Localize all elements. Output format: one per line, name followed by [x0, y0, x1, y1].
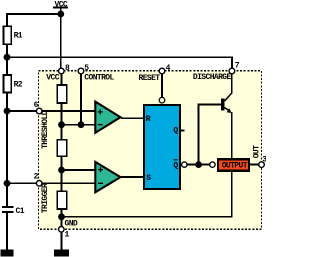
transistor Q1 (discharge) — [221, 71, 232, 113]
node 2/3 divider junction — [58, 121, 65, 128]
node control junction — [78, 121, 85, 128]
wire: trigger line — [6, 182, 94, 184]
divider resistor bottom — [57, 191, 66, 209]
wire: divider chain — [61, 71, 63, 250]
node 1/3 divider junction — [58, 167, 65, 174]
wire: base net up and over — [199, 105, 222, 165]
Qbar bubble — [182, 162, 187, 167]
wire: comparator2 plus feed — [62, 169, 95, 171]
svg-text:C1: C1 — [16, 207, 25, 216]
node R1-R2 junction — [4, 54, 11, 61]
flip-flop U1 — [144, 105, 180, 189]
wire: comparator1 minus feed — [62, 124, 95, 126]
pin 6 THRESHOLD — [34, 101, 50, 149]
wire: discharge line — [6, 57, 232, 68]
wire: ground return loop — [62, 112, 232, 217]
svg-text:DISCHARGE: DISCHARGE — [193, 73, 232, 82]
svg-text:1: 1 — [65, 231, 70, 240]
pin 7 DISCHARGE — [193, 62, 240, 82]
reset inverter bubble — [159, 97, 165, 103]
node trigger junction — [4, 180, 11, 187]
op-amp comparator 1 (threshold) — [95, 102, 120, 133]
svg-text:OUT: OUT — [252, 145, 261, 158]
svg-text:OUTPUT: OUTPUT — [222, 162, 248, 171]
pin 2 TRIGGER — [34, 173, 50, 214]
wire: VCC stub down to pin 8 — [60, 8, 62, 72]
op-amp comparator 2 (trigger) — [95, 162, 120, 192]
svg-text:R1: R1 — [14, 32, 23, 41]
wire: Qbar to output stage — [187, 164, 210, 166]
svg-text:TRIGGER: TRIGGER — [41, 183, 50, 213]
resistor R2 — [4, 75, 23, 93]
pin 1 GND — [59, 219, 78, 239]
svg-text:3: 3 — [262, 155, 266, 164]
output stage input bubble — [210, 162, 215, 167]
pin 5 CONTROL — [78, 64, 114, 82]
wire: comparator1 output to R — [121, 117, 144, 119]
wire: comparator2 output to S — [121, 176, 144, 178]
resistor R1 — [4, 26, 23, 44]
wire: Q stub — [181, 130, 185, 132]
svg-text:CONTROL: CONTROL — [84, 74, 114, 83]
wire: threshold line — [6, 110, 94, 112]
divider resistor top — [57, 85, 66, 103]
wire: top VCC horizontal — [6, 13, 61, 15]
svg-text:GND: GND — [65, 219, 78, 228]
svg-text:THRESHOLD: THRESHOLD — [41, 110, 50, 149]
divider resistor middle — [57, 140, 66, 157]
svg-text:VCC: VCC — [46, 74, 59, 83]
ground (C1) — [1, 250, 14, 257]
pin 4 RESET — [139, 64, 171, 83]
node threshold junction — [4, 108, 11, 115]
svg-text:R2: R2 — [14, 81, 23, 90]
node ground junction — [58, 213, 65, 220]
pin 3 OUT — [252, 145, 267, 168]
wire: left rail — [6, 14, 8, 250]
node base junction — [195, 161, 202, 168]
svg-text:7: 7 — [235, 62, 240, 71]
IC 555 body — [39, 71, 262, 230]
wire: output to pin 3 — [249, 164, 259, 166]
wire: reset drop from pin 4 — [161, 71, 163, 97]
svg-text:RESET: RESET — [139, 74, 161, 83]
capacitor C1 — [2, 207, 25, 216]
wire: control drop from pin 5 — [80, 71, 82, 125]
pin 8 VCC — [46, 64, 70, 82]
OUTPUT block — [218, 159, 249, 170]
node VCC junction — [57, 11, 64, 18]
ground (pin 1) — [54, 250, 69, 257]
VCC — [53, 0, 68, 9]
